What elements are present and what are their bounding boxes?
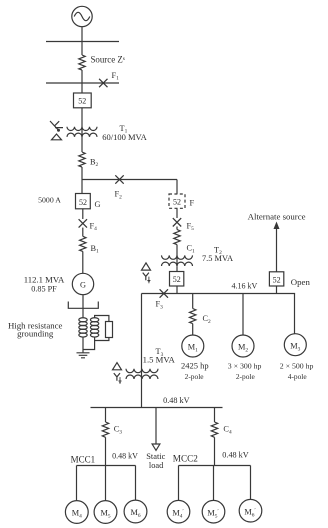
generator neutral bracket [68, 302, 98, 309]
svg-text:112.1 MVA: 112.1 MVA [24, 274, 65, 284]
svg-text:C4: C4 [223, 425, 232, 436]
svg-text:grounding: grounding [17, 329, 54, 339]
wire C1 to T2 [176, 245, 178, 267]
svg-text:2425 hp: 2425 hp [181, 361, 209, 371]
wire resistor bottom [95, 338, 109, 341]
svg-text:F5: F5 [187, 221, 195, 232]
motor M2 [232, 335, 254, 357]
svg-text:M6′: M6′ [244, 507, 255, 518]
svg-text:G: G [80, 281, 86, 290]
label 3x300 hp 2-pole [228, 362, 262, 381]
svg-text:0.85 PF: 0.85 PF [31, 285, 57, 294]
fuse F4 [79, 219, 87, 227]
wire breaker Open to bus [276, 286, 278, 294]
grounding transformer primary coil [79, 318, 87, 337]
bus 4.16 kV [142, 293, 296, 295]
wire secondary bottom [83, 337, 95, 349]
wire bus corner to motor M3 [294, 294, 296, 334]
T2 secondary wye-ground symbol [143, 273, 151, 283]
grounding transformer secondary coil [90, 318, 98, 337]
wire bus B to breaker [81, 83, 83, 93]
label 2x500 hp 4-pole [280, 362, 314, 381]
wire C2 to motor M1 [192, 324, 194, 335]
svg-text:2 × 500 hp: 2 × 500 hp [280, 362, 314, 371]
svg-text:7.5 MVA: 7.5 MVA [202, 254, 233, 263]
wire MCC2 to M5p [213, 466, 215, 501]
wire B2 to breaker G, junction node [81, 167, 83, 194]
bus 0.48 kV [91, 407, 223, 409]
svg-text:F: F [190, 199, 195, 208]
wire bus down to T3 [141, 294, 143, 379]
svg-text:Open: Open [291, 277, 311, 287]
svg-text:MCC2: MCC2 [173, 454, 198, 464]
svg-text:2-pole: 2-pole [185, 372, 205, 381]
resistor B2 [79, 152, 85, 167]
AC source (utility) [72, 6, 92, 26]
breaker 52 (main) [74, 93, 92, 108]
fuse F1 [99, 79, 107, 87]
resistor C1 [174, 230, 180, 245]
wire T2 to breaker [176, 266, 178, 271]
transformer T2 [162, 255, 193, 266]
svg-text:F1: F1 [112, 71, 120, 82]
svg-text:Alternate source: Alternate source [248, 212, 306, 222]
svg-text:M5′: M5′ [207, 508, 218, 519]
wire MCC1 to M5 [105, 466, 107, 501]
svg-text:B2: B2 [90, 157, 99, 168]
svg-text:B1: B1 [91, 244, 100, 255]
wire F4 to B1 [82, 228, 84, 237]
label High resistance grounding [8, 321, 63, 339]
wire secondary top to resistor [95, 316, 109, 322]
svg-text:52: 52 [78, 97, 86, 106]
wire feeder down to dashed breaker [176, 180, 178, 195]
resistor C2 [190, 309, 196, 324]
wire T3 to 0.48kV bus [141, 379, 143, 408]
motor M4 prime [167, 500, 190, 523]
transformer T3 [126, 369, 158, 379]
label 2425 hp 2-pole [181, 361, 209, 381]
wire source to bus A [81, 27, 83, 42]
wire bus to static load [155, 408, 157, 445]
wire MCC1 to M4 [76, 466, 78, 501]
T3 secondary wye-ground symbol [114, 373, 122, 383]
svg-text:2-pole: 2-pole [236, 372, 256, 381]
svg-text:4.16 kV: 4.16 kV [232, 281, 258, 290]
resistor B1 [80, 236, 86, 251]
motor M6 prime [239, 499, 262, 522]
static load arrow [152, 444, 160, 450]
svg-text:C3: C3 [114, 425, 123, 436]
svg-text:F4: F4 [90, 221, 98, 232]
motor M6 [124, 500, 147, 523]
svg-text:C1: C1 [187, 244, 196, 255]
svg-text:0.48 kV: 0.48 kV [163, 396, 189, 405]
svg-text:0.48 kV: 0.48 kV [222, 451, 248, 460]
wire C3 to MCC1 bus [105, 437, 107, 465]
wire generator to neutral bracket [82, 295, 84, 318]
bus A (top) [46, 41, 119, 43]
wire MCC2 to M6p [250, 466, 252, 500]
T2 primary delta symbol [142, 263, 151, 270]
label Static load [146, 452, 165, 470]
svg-text:0.48 kV: 0.48 kV [112, 451, 138, 460]
ground symbol [77, 353, 90, 358]
svg-text:4-pole: 4-pole [288, 372, 308, 381]
svg-text:60/100 MVA: 60/100 MVA [102, 132, 147, 142]
svg-text:MCC1: MCC1 [71, 454, 96, 464]
svg-text:Static: Static [146, 452, 165, 461]
motor M1 [182, 335, 204, 357]
wire bus to C4 [214, 408, 216, 423]
T1 secondary delta symbol [52, 134, 62, 140]
breaker 52 Open (alternate) [269, 272, 283, 286]
breaker 52 (T2 secondary) [170, 272, 184, 287]
transformer T1 [67, 127, 97, 137]
wire breaker to T1 [81, 108, 83, 152]
T3 primary delta symbol [113, 363, 122, 370]
svg-text:F2: F2 [115, 190, 123, 201]
T1 primary wye-ground symbol [50, 121, 63, 132]
wire breaker to 4.16kV bus [176, 286, 178, 294]
wire dashed breaker to F5 [176, 208, 178, 218]
wire C4 to MCC2 bus [214, 437, 216, 465]
svg-text:1.5 MVA: 1.5 MVA [143, 355, 176, 365]
wire bus A to resistor [81, 42, 83, 56]
resistor Source Z [79, 55, 85, 70]
svg-text:M6: M6 [130, 508, 140, 519]
svg-text:3 × 300 hp: 3 × 300 hp [228, 362, 262, 371]
wire bus to C2 [192, 294, 194, 309]
svg-text:M5: M5 [100, 509, 110, 520]
svg-text:5000 A: 5000 A [38, 196, 61, 205]
svg-text:Source Zs: Source Zs [91, 55, 125, 65]
svg-text:52: 52 [173, 275, 181, 284]
svg-text:M3: M3 [290, 341, 300, 352]
svg-text:C2: C2 [203, 314, 212, 325]
wire branch to T2 feeder [82, 179, 177, 181]
wire breaker G to F4 [82, 209, 84, 219]
grounding resistor box [106, 322, 113, 338]
svg-text:M2: M2 [238, 343, 248, 354]
fuse F3 [160, 289, 168, 297]
fuse F5 [173, 218, 181, 226]
motor M4 [65, 501, 88, 524]
wire MCC2 to M4p [178, 466, 180, 501]
wire primary to ground [82, 337, 84, 353]
wire B1 to generator [82, 251, 84, 273]
svg-text:M4′: M4′ [172, 508, 183, 519]
wire bus to C3 [105, 408, 107, 423]
svg-text:M4: M4 [72, 509, 82, 520]
fuse F2 [115, 175, 123, 183]
wire F5 to C1 [176, 227, 178, 230]
motor M3 [284, 334, 306, 356]
resistor C4 [211, 422, 217, 437]
motor M5 [94, 501, 117, 524]
bus B [46, 82, 119, 84]
resistor C3 [102, 422, 108, 437]
svg-text:load: load [149, 461, 164, 470]
bus MCC1 [77, 465, 136, 467]
bus MCC2 [179, 465, 251, 467]
svg-text:52: 52 [273, 275, 281, 284]
svg-text:52: 52 [79, 198, 87, 207]
wire resistor to bus B [81, 70, 83, 83]
breaker 52 F (dashed future) [169, 194, 185, 208]
alternate source arrow [274, 222, 280, 272]
breaker 52 G [76, 194, 91, 209]
svg-text:F3: F3 [156, 300, 164, 311]
svg-text:G: G [95, 200, 101, 209]
svg-text:52: 52 [173, 198, 181, 207]
generator G [72, 273, 93, 294]
wire MCC1 to M6 [135, 466, 137, 501]
motor M5 prime [202, 500, 225, 523]
svg-text:M1: M1 [188, 343, 198, 354]
wire bus to motor M2 [242, 294, 244, 336]
